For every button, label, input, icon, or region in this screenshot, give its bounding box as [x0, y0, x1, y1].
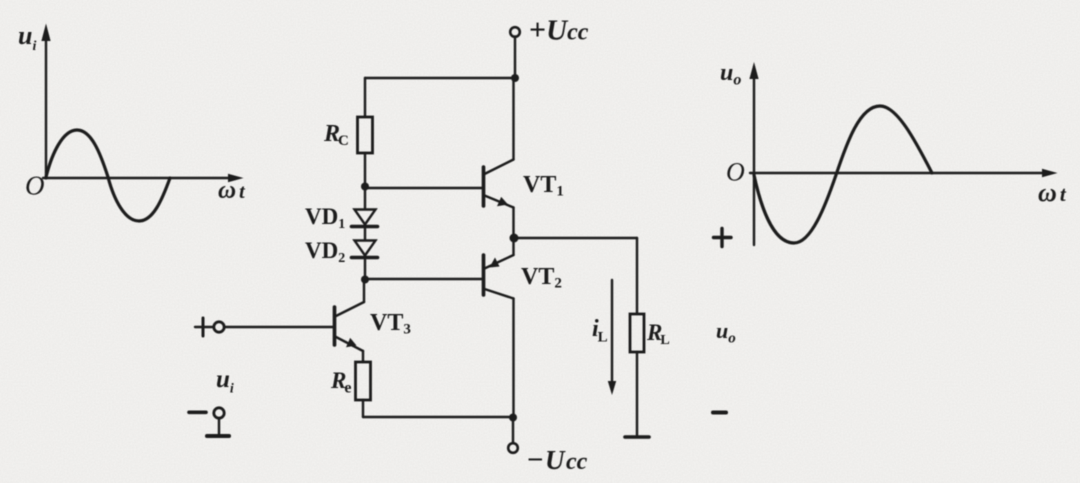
wire: Re bottom to bottom rail: [362, 400, 364, 417]
junction dot below VD2: [361, 276, 369, 284]
wire: RL branch down: [636, 238, 638, 314]
junction dot at top rail: [511, 74, 519, 82]
input ground stem: [218, 418, 220, 435]
wire: node to VT1 base: [365, 187, 482, 189]
wire: VT3 emitter to Re: [362, 351, 364, 362]
wire: RC bottom to node: [364, 153, 366, 209]
current arrow iL: [608, 280, 616, 395]
resistor RL: [630, 314, 644, 352]
input - terminal: [189, 408, 224, 418]
output polarity -: [713, 411, 726, 415]
input + terminal: [195, 318, 224, 336]
svg-text:−Ucc: −Ucc: [527, 444, 588, 476]
wire: VT1 emitter down to output node: [512, 208, 514, 239]
transistor VT1: [484, 160, 514, 208]
wire: output node down to VT2 emitter: [512, 238, 514, 255]
svg-text:O: O: [25, 171, 45, 201]
wire: VD2 to lower node: [364, 257, 366, 279]
diode VD2: [352, 241, 378, 258]
+Ucc terminal circle: [510, 27, 520, 37]
left graph: input sine wave: [46, 130, 170, 221]
wire: VD1 to VD2: [364, 226, 366, 240]
transistor VT2: [484, 255, 514, 299]
junction dot output node: [510, 234, 519, 243]
input ground bar: [207, 434, 229, 438]
junction dot bottom rail: [509, 414, 517, 422]
left graph: vertical axis u_i: [41, 24, 50, 179]
wire: bottom rail horizontal: [363, 416, 513, 418]
diode VD1: [352, 210, 378, 227]
wire: output node to RL branch: [514, 237, 637, 239]
right graph: vertical axis u_o: [749, 62, 758, 245]
svg-text:ωt: ωt: [218, 177, 246, 204]
output polarity +: [714, 229, 732, 247]
wire: +Ucc down to top rail junction: [514, 37, 516, 79]
wire: left branch from top rail down to RC: [364, 78, 366, 117]
wire: bottom junction down to -Ucc: [512, 418, 514, 443]
wire: top rail horizontal: [365, 77, 515, 79]
wire: top rail down to VT1 collector: [512, 78, 514, 160]
resistor Re: [356, 362, 371, 400]
wire: input to VT3 base: [224, 326, 333, 328]
svg-text:O: O: [726, 158, 745, 187]
wire: node to VT2 base: [365, 278, 482, 280]
left graph: horizontal axis wt: [43, 174, 244, 182]
junction dot below RC: [361, 183, 369, 191]
wire: RL bottom to ground: [636, 352, 638, 436]
wire: VT2 collector down to bottom junction: [512, 299, 514, 419]
svg-text:ωt: ωt: [1038, 178, 1067, 207]
right graph: output sine wave: [754, 106, 932, 243]
ground bar RL: [625, 435, 649, 439]
resistor RC: [358, 117, 373, 153]
transistor VT3: [335, 281, 365, 351]
-Ucc terminal circle: [508, 443, 518, 453]
right graph: horizontal axis wt: [750, 169, 1058, 177]
